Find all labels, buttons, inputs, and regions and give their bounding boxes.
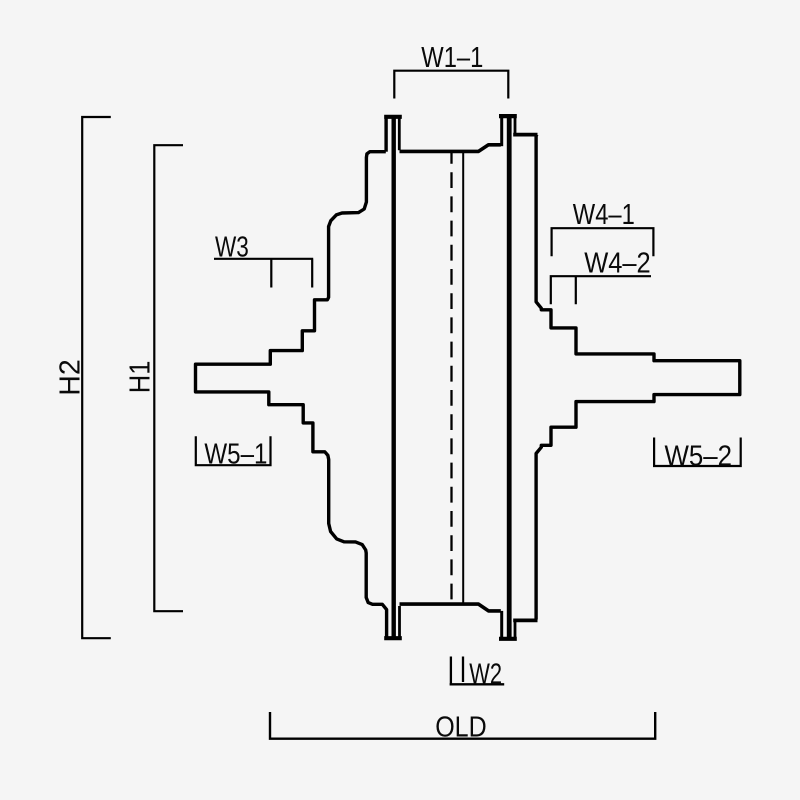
center line (dashed) bbox=[450, 153, 452, 603]
right flange plate bbox=[507, 117, 512, 638]
shell bottom wall bbox=[400, 604, 501, 611]
svg-text:H1: H1 bbox=[125, 361, 157, 394]
dimension H1 bracket bbox=[154, 145, 183, 611]
rim center line (thin solid) bbox=[462, 153, 464, 603]
svg-text:W1–1: W1–1 bbox=[421, 42, 483, 74]
svg-text:W5–1: W5–1 bbox=[204, 439, 267, 471]
dimension W5-1 bracket bbox=[196, 436, 271, 465]
hub shell right outer profile bbox=[536, 135, 740, 620]
svg-text:W2: W2 bbox=[469, 659, 502, 691]
left flange plate bbox=[392, 117, 396, 636]
svg-text:H2: H2 bbox=[55, 359, 87, 396]
svg-text:W5–2: W5–2 bbox=[665, 440, 733, 472]
bottom right spoke tab bbox=[499, 611, 538, 641]
bottom left spoke tab bbox=[384, 606, 402, 640]
svg-text:W4–1: W4–1 bbox=[573, 199, 635, 231]
dimension OLD bracket bbox=[270, 712, 655, 739]
dimension W4-1 bracket bbox=[552, 228, 654, 256]
dimension W4-2 bracket bbox=[551, 276, 651, 304]
dimension W2 ticks and underline bbox=[450, 657, 505, 685]
shell top wall bbox=[400, 145, 501, 152]
dimension W5-2 bracket bbox=[654, 438, 741, 467]
svg-text:W3: W3 bbox=[215, 232, 249, 264]
dimension H2 bracket bbox=[82, 117, 111, 638]
svg-text:W4–2: W4–2 bbox=[584, 248, 651, 280]
dimension W3 bracket bbox=[214, 259, 313, 288]
svg-text:OLD: OLD bbox=[435, 711, 487, 743]
hub shell left outer profile bbox=[196, 152, 387, 637]
dimension W1-1 bracket bbox=[394, 71, 508, 99]
top left spoke tab bbox=[384, 115, 402, 152]
top right spoke tab bbox=[499, 115, 538, 147]
